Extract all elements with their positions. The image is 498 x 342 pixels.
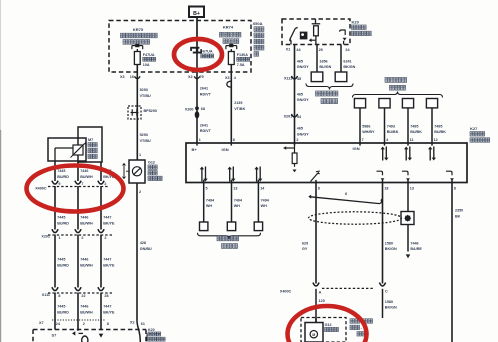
svg-text:IGN: IGN	[353, 146, 360, 151]
svg-text:10A: 10A	[143, 63, 150, 67]
svg-text:BU/BK: BU/BK	[387, 130, 399, 134]
svg-text:5: 5	[206, 187, 208, 191]
svg-text:2350: 2350	[455, 209, 463, 213]
svg-text:G12: G12	[148, 161, 155, 165]
svg-text:X1: X1	[286, 47, 291, 51]
svg-text:465: 465	[297, 59, 303, 63]
svg-text:BU/WH: BU/WH	[80, 310, 93, 314]
svg-text:629: 629	[302, 241, 308, 245]
svg-text:8: 8	[233, 138, 235, 142]
svg-text:BA/RE: BA/RE	[410, 247, 422, 251]
svg-text:WH/BY: WH/BY	[362, 130, 375, 134]
svg-text:BU/BK: BU/BK	[410, 130, 422, 134]
svg-text:28: 28	[104, 294, 108, 298]
svg-text:8: 8	[318, 187, 320, 191]
svg-text:VT/BK: VT/BK	[234, 107, 245, 111]
svg-text:BK/YE: BK/YE	[103, 310, 115, 314]
svg-text:7445: 7445	[57, 169, 65, 173]
svg-text:K20: K20	[352, 19, 360, 24]
svg-text:BU/WH: BU/WH	[80, 175, 93, 179]
svg-text:RD/VT: RD/VT	[200, 92, 212, 96]
svg-text:16: 16	[130, 75, 134, 79]
svg-text:6241: 6241	[343, 59, 351, 63]
svg-text:5293: 5293	[140, 88, 148, 92]
svg-text:7493: 7493	[387, 124, 395, 128]
svg-text:5293: 5293	[140, 133, 148, 137]
svg-text:WH: WH	[206, 204, 212, 208]
svg-text:7.5A: 7.5A	[237, 63, 245, 67]
svg-text:BU/RD: BU/RD	[57, 310, 69, 314]
svg-text:2: 2	[139, 190, 141, 194]
svg-text:BK/GN: BK/GN	[385, 247, 397, 251]
svg-text:7446: 7446	[410, 241, 418, 245]
svg-text:B+: B+	[192, 147, 198, 152]
svg-text:BU/WH: BU/WH	[80, 221, 93, 225]
svg-text:WH: WH	[234, 204, 240, 208]
svg-text:8: 8	[107, 322, 109, 326]
svg-text:KR74: KR74	[223, 25, 234, 30]
svg-text:F67UA: F67UA	[201, 49, 213, 53]
svg-text:11: 11	[410, 138, 414, 142]
svg-text:7446: 7446	[80, 305, 88, 309]
svg-text:B+: B+	[193, 11, 200, 17]
svg-text:22: 22	[81, 294, 85, 298]
svg-text:GN/BU: GN/BU	[140, 247, 152, 251]
svg-text:9: 9	[58, 182, 60, 186]
svg-text:7446: 7446	[80, 216, 88, 220]
svg-text:BK/YE: BK/YE	[103, 221, 115, 225]
svg-text:X111: X111	[284, 77, 292, 81]
svg-text:GN/GY: GN/GY	[297, 98, 309, 102]
svg-text:C: C	[385, 289, 388, 293]
svg-text:7447: 7447	[103, 305, 111, 309]
svg-text:VT/BU: VT/BU	[140, 139, 151, 143]
svg-text:BP5293: BP5293	[144, 109, 157, 113]
svg-text:M7: M7	[88, 138, 93, 142]
svg-text:1: 1	[139, 153, 141, 157]
svg-text:2: 2	[104, 182, 106, 186]
svg-text:F130A: F130A	[237, 53, 248, 57]
svg-text:18: 18	[384, 187, 388, 191]
svg-text:2139: 2139	[234, 101, 242, 105]
svg-text:2: 2	[104, 236, 106, 240]
svg-text:5986: 5986	[362, 124, 370, 128]
svg-text:X200: X200	[185, 108, 194, 112]
svg-text:RD/VT: RD/VT	[200, 129, 212, 133]
svg-text:25: 25	[319, 48, 323, 52]
svg-text:BU/GN: BU/GN	[319, 65, 331, 69]
svg-text:X3: X3	[120, 75, 125, 79]
svg-text:1580: 1580	[385, 300, 393, 304]
svg-text:X201: X201	[41, 235, 50, 239]
svg-text:7445: 7445	[57, 216, 65, 220]
svg-text:7: 7	[81, 182, 83, 186]
svg-text:M: M	[312, 333, 315, 337]
svg-text:7494: 7494	[206, 198, 215, 202]
svg-text:2: 2	[83, 322, 85, 326]
svg-text:X2: X2	[188, 75, 193, 79]
svg-text:WH: WH	[261, 204, 267, 208]
svg-text:X400C: X400C	[280, 289, 292, 293]
svg-text:120: 120	[319, 299, 325, 303]
svg-text:VT/BU: VT/BU	[140, 94, 151, 98]
svg-text:7446: 7446	[80, 258, 88, 262]
svg-text:7447: 7447	[103, 258, 111, 262]
svg-text:X201: X201	[284, 115, 293, 119]
svg-text:13: 13	[233, 187, 237, 191]
svg-text:GN/GY: GN/GY	[297, 65, 309, 69]
svg-text:7494: 7494	[261, 198, 270, 202]
svg-text:465: 465	[297, 92, 303, 96]
svg-text:BU/WH: BU/WH	[80, 263, 93, 267]
svg-text:68: 68	[201, 107, 205, 111]
svg-text:BK/GN: BK/GN	[385, 306, 397, 310]
svg-text:X2: X2	[130, 321, 135, 325]
svg-text:BU/BK: BU/BK	[434, 130, 446, 134]
svg-text:BU/RD: BU/RD	[57, 263, 69, 267]
svg-text:X400C: X400C	[35, 187, 47, 191]
svg-text:K20: K20	[148, 328, 155, 332]
svg-text:2: 2	[81, 236, 83, 240]
svg-text:465: 465	[297, 127, 303, 131]
svg-text:7446: 7446	[80, 169, 88, 173]
svg-text:G12: G12	[325, 323, 332, 327]
svg-text:1656: 1656	[319, 59, 327, 63]
svg-text:428: 428	[140, 241, 146, 245]
svg-text:7445: 7445	[57, 305, 65, 309]
svg-text:7494: 7494	[234, 198, 243, 202]
svg-text:KR75: KR75	[133, 27, 144, 32]
svg-text:8: 8	[454, 187, 456, 191]
svg-text:7495: 7495	[410, 124, 418, 128]
svg-text:7447: 7447	[103, 216, 111, 220]
svg-text:X50A: X50A	[253, 21, 263, 26]
svg-text:13: 13	[410, 187, 414, 191]
svg-text:F47UA: F47UA	[143, 53, 155, 57]
svg-text:2: 2	[296, 138, 298, 142]
svg-text:8: 8	[58, 294, 60, 298]
svg-text:7495: 7495	[434, 124, 442, 128]
svg-text:45: 45	[297, 77, 301, 81]
svg-text:7: 7	[362, 138, 364, 142]
svg-text:1580: 1580	[385, 241, 393, 245]
svg-text:A: A	[319, 290, 322, 294]
svg-text:1: 1	[58, 236, 60, 240]
svg-text:S7: S7	[52, 333, 57, 338]
svg-text:7445: 7445	[57, 258, 65, 262]
svg-text:X3: X3	[225, 76, 230, 80]
svg-text:61: 61	[141, 322, 145, 326]
svg-text:GY: GY	[302, 247, 308, 251]
svg-text:BK/YE: BK/YE	[103, 263, 115, 267]
svg-text:K27: K27	[470, 126, 478, 131]
svg-text:2641: 2641	[200, 87, 208, 91]
svg-text:BK/GN: BK/GN	[343, 65, 355, 69]
svg-text:GN/GY: GN/GY	[297, 132, 309, 136]
svg-text:IGN: IGN	[222, 147, 229, 152]
svg-text:X7: X7	[39, 321, 44, 325]
svg-text:BK: BK	[455, 214, 461, 218]
svg-text:1: 1	[199, 138, 201, 142]
svg-text:X111: X111	[42, 293, 50, 297]
svg-text:12: 12	[434, 138, 438, 142]
svg-text:2641: 2641	[200, 123, 208, 127]
svg-text:BU/RD: BU/RD	[57, 221, 69, 225]
svg-text:BU/RD: BU/RD	[57, 175, 69, 179]
